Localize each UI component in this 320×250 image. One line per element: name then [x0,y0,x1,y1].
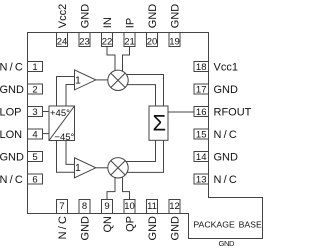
svg-text:GND: GND [0,84,24,96]
svg-text:GND: GND [214,151,239,163]
svg-text:1: 1 [75,162,81,174]
svg-text:14: 14 [196,152,207,163]
pin 22 pad [102,33,113,47]
svg-text:1: 1 [32,62,37,73]
wire pin22 to mixer M1 [107,47,115,72]
svg-text:5: 5 [32,152,37,163]
svg-text:GND: GND [147,4,159,29]
svg-text:N / C: N / C [214,174,237,186]
svg-text:GND: GND [218,239,235,248]
wire mixer M2 lower output to sigma bottom [126,140,163,172]
svg-text:GND: GND [79,4,91,29]
mixer M1 (top) [108,70,128,90]
pin 9 pad [102,200,113,214]
wire amp U1 out to mixer M1 [96,79,108,81]
svg-text:22: 22 [102,37,113,48]
svg-text:LOP: LOP [0,106,22,118]
pin 4 pad [28,129,43,139]
wire phase shifter top outer to amp U1 upper input [57,77,75,107]
pin 13 pad [194,174,209,184]
pin 19 pad [169,33,180,47]
svg-text:Vcc2: Vcc2 [57,4,69,28]
svg-text:17: 17 [196,84,207,95]
top pin labels (rotated) [57,4,181,29]
pin 24 pad [57,33,68,47]
pin 12 pad [169,200,180,214]
phase shifter block +45/-45 [49,106,75,143]
svg-text:7: 7 [59,201,64,212]
pin 14 pad [194,152,209,162]
left pin pads 1..6 [28,62,43,185]
svg-text:Σ: Σ [152,111,166,136]
left pin labels [0,61,24,186]
bottom pin labels (rotated) [57,216,181,241]
svg-text:1: 1 [75,75,81,87]
svg-text:GND: GND [169,4,181,29]
pin 15 pad [194,129,209,139]
right pin pads 18..13 [194,62,209,185]
svg-text:+45°: +45° [50,108,70,119]
svg-text:IN: IN [102,17,114,28]
right pin labels [214,61,252,186]
wire amp U2 out to mixer M2 [96,167,108,169]
svg-text:GND: GND [169,216,181,241]
amplifier U2 (bottom) [75,158,96,178]
svg-text:N / C: N / C [214,129,237,141]
pin 6 pad [28,174,43,184]
svg-text:15: 15 [196,129,207,140]
pin 23 pad [79,33,90,47]
svg-text:2: 2 [32,84,37,95]
svg-text:QP: QP [124,216,136,232]
svg-text:6: 6 [32,174,37,185]
svg-text:RFOUT: RFOUT [214,106,252,118]
svg-text:24: 24 [57,37,68,48]
wire mixer M1 upper output to sigma top [126,75,163,107]
pin 17 pad [194,84,209,94]
svg-text:13: 13 [196,174,207,185]
svg-text:−45°: −45° [54,132,74,143]
svg-text:N / C: N / C [0,174,23,186]
pin 3 pad [28,107,43,117]
svg-text:11: 11 [147,201,157,212]
wire mixer M2 to pin9 [107,177,115,199]
svg-text:9: 9 [104,201,109,212]
wire mixer M2 upper output to sigma bottom [127,140,156,161]
wire pin4 to phase shifter [43,133,50,135]
svg-text:QN: QN [102,216,114,233]
svg-text:IP: IP [124,18,136,28]
pin 8 pad [79,200,90,214]
svg-text:19: 19 [169,37,180,48]
pin 1 pad [28,62,43,72]
wire sigma to pin16 RFOUT [168,111,194,113]
svg-text:GND: GND [147,216,159,241]
chip body with package base (merged outline) [28,33,263,239]
svg-text:BASE: BASE [239,220,262,230]
pin 11 pad [147,200,158,214]
bottom pin pads 7..12 [57,200,181,214]
svg-text:GND: GND [214,84,239,96]
pin 7 pad [57,200,68,214]
pin 20 pad [147,33,158,47]
pin 16 pad [194,107,209,117]
svg-text:N / C: N / C [57,216,69,239]
svg-text:18: 18 [196,62,207,73]
svg-text:8: 8 [82,201,87,212]
wire phase shifter top inner to amp U1 lower input [66,85,75,107]
svg-text:4: 4 [32,129,37,140]
top pin pads 24..19 [57,33,181,47]
mixer M2 (bottom) [108,158,128,178]
svg-text:12: 12 [169,201,180,212]
svg-text:20: 20 [147,37,158,48]
pin 21 pad [124,33,135,47]
svg-text:Vcc1: Vcc1 [214,61,238,73]
svg-text:N / C: N / C [0,61,23,73]
wire phase shifter bottom inner to amp U2 upper input [66,141,75,165]
pin 10 pad [124,200,135,214]
wire pin3 to phase shifter [43,111,50,113]
wire pin21 to mixer M1 [123,47,130,72]
pin 18 pad [194,62,209,72]
pin 5 pad [28,152,43,162]
wire mixer M2 to pin10 [123,177,130,199]
svg-text:23: 23 [79,37,90,48]
summation block SIGMA [149,106,168,140]
wire mixer M1 lower output to sigma top [127,85,156,106]
pin 2 pad [28,84,43,94]
svg-text:GND: GND [0,151,24,163]
wire phase shifter bottom outer to amp U2 lower input [57,141,75,173]
svg-text:PACKAGE: PACKAGE [193,220,235,230]
amplifier U1 (top) [75,70,96,90]
svg-text:3: 3 [32,107,37,118]
svg-text:LON: LON [0,129,22,141]
svg-text:GND: GND [79,216,91,241]
svg-text:16: 16 [196,107,207,118]
svg-text:10: 10 [124,201,135,212]
svg-text:21: 21 [124,37,135,48]
